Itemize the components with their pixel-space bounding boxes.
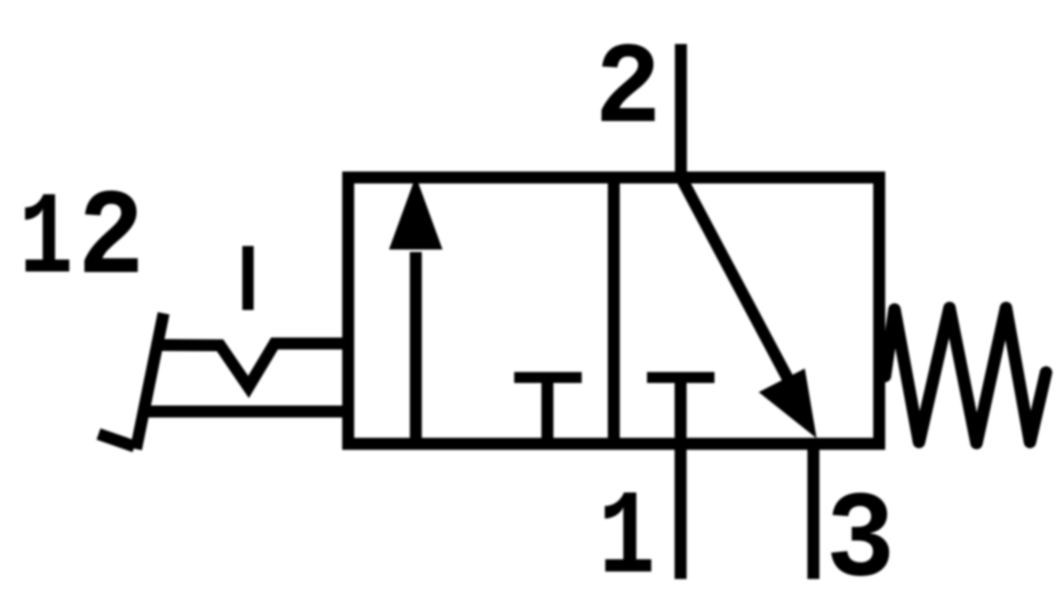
pilot top link with detent notch (156, 344, 354, 388)
flow arrow shaft (left box, 1 to 2) (410, 252, 422, 444)
svg-text:1: 1 (598, 473, 655, 608)
valve position divider (608, 178, 620, 444)
lever foot (99, 434, 135, 447)
label: pilot port 12, digit 1 (19, 175, 73, 307)
port 2 line (wire) (675, 44, 687, 178)
label: pilot port 12, digit 2 (78, 171, 144, 309)
manual lever arm (left actuator) (136, 313, 164, 449)
label: port 2 (595, 25, 661, 156)
flow path line 2 to 3 (right box diagonal) (681, 178, 788, 380)
valve body V1 (two-position 3/2 valve) outer box (348, 178, 879, 444)
svg-text:2: 2 (595, 25, 661, 156)
label: port 1 (598, 473, 655, 608)
pilot bottom link (141, 406, 354, 418)
blocked port T bar (port 1, right box) (647, 372, 715, 383)
flow arrow head (left box) (389, 176, 443, 250)
spring return (right side) (885, 308, 1046, 443)
svg-text:1: 1 (19, 175, 73, 307)
label: port 3 (826, 473, 895, 611)
flow arrow head (right box diagonal, pointing to port 3) (759, 369, 817, 439)
detent tick (242, 246, 253, 310)
port 3 line (wire) (807, 444, 819, 579)
svg-text:3: 3 (826, 473, 895, 611)
svg-text:2: 2 (78, 171, 144, 309)
blocked port T (left box) stem (541, 378, 553, 444)
blocked port T (left box) bar (514, 372, 582, 383)
port 1 line (wire, continues as blocked-port stem inside right box) (675, 378, 687, 580)
